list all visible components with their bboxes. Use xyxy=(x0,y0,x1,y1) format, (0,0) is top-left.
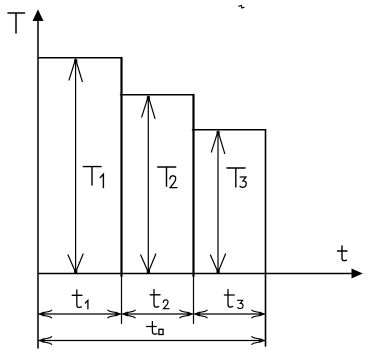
t1 right arrowhead xyxy=(108,310,120,318)
step 3 top edge xyxy=(193,129,266,131)
step 1/2 boundary wire xyxy=(120,58,122,276)
label t2 xyxy=(150,290,160,308)
t0 right arrowhead xyxy=(252,337,264,345)
overall dimension line t0 xyxy=(38,340,266,342)
step 3 right edge wire xyxy=(265,130,267,346)
axis label T xyxy=(8,13,25,33)
label T1 xyxy=(83,167,103,188)
dimension line t1 t2 t3 xyxy=(38,313,266,315)
t2 right arrowhead xyxy=(180,310,192,318)
t1 left arrowhead xyxy=(39,310,51,318)
t2 left arrowhead xyxy=(123,310,135,318)
dimension arrow T3 xyxy=(210,131,225,273)
t3 right arrowhead xyxy=(252,310,264,318)
dimension arrow T1 xyxy=(68,59,83,273)
stray mark xyxy=(239,6,244,8)
label t1 xyxy=(72,290,88,309)
t3 left arrowhead xyxy=(195,310,207,318)
label t0 xyxy=(147,322,158,335)
step 2 top edge xyxy=(121,94,194,96)
axis label t xyxy=(338,246,348,261)
step 2/3 boundary wire xyxy=(192,95,194,276)
y-axis (T axis) xyxy=(37,20,39,349)
label T2 xyxy=(158,167,176,186)
x-axis (t axis) xyxy=(38,273,353,275)
label T3 xyxy=(227,168,245,187)
dimension arrow T2 xyxy=(141,96,156,273)
step 1 top edge xyxy=(38,57,122,59)
t0 left arrowhead xyxy=(39,337,51,345)
label t3 xyxy=(224,290,234,308)
